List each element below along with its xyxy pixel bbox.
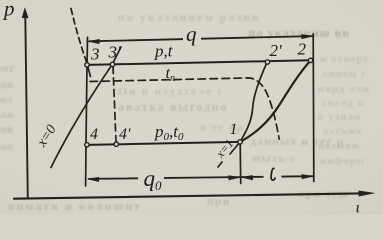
q dimension right arrowhead [302,34,313,38]
svg-text:4: 4 [90,126,98,143]
extension tick above 3 [86,37,88,62]
svg-text:данных и тег р: данных и тег р [250,134,345,148]
extension tick below 1 [239,142,242,184]
svg-text:своед н: своед н [322,97,365,109]
svg-text:p: p [2,0,15,21]
l right arrowhead [302,174,313,178]
node 4' [114,142,118,146]
svg-text:аж: аж [0,107,15,121]
p axis arrowhead [22,8,28,18]
dashed isotherm t_n [90,78,279,139]
svg-text:2: 2 [298,40,307,59]
compression line 1-2 [240,61,310,142]
bottom isobar line p0,t0 (4 to 1) [87,142,240,145]
q label mask [183,28,201,49]
node 2 [308,58,312,62]
q dimension left arrowhead [88,39,99,43]
svg-text:ня: ня [0,139,14,153]
top isobar line p,t (3 to 2) [87,60,311,65]
svg-text:3: 3 [90,45,100,64]
svg-text:ол: ол [0,92,13,106]
x=1 saturation curve 1 to 2' [240,62,267,142]
p axis [25,17,28,199]
l left arrowhead [242,175,253,179]
l label mask [264,167,282,186]
svg-text:ι: ι [356,200,360,216]
label l (work) [271,168,275,180]
dashed isotherm t through point 3 [71,9,87,63]
q0 right arrowhead [229,176,240,180]
q dimension line [89,36,312,41]
svg-text:мыть с: мыть с [252,151,296,165]
q0 label mask [138,167,164,191]
svg-text:анием г: анием г [322,68,367,80]
svg-text:p,t: p,t [154,42,174,61]
svg-text:1: 1 [230,121,238,138]
x=1 curve below point 1 [218,142,240,167]
right extension tick through 2 [312,34,315,182]
dashed vertical 3'-4' [113,67,116,142]
node 3' [110,62,114,66]
q0 left arrowhead [88,177,99,181]
node 2' [265,60,269,64]
svg-text:4': 4' [119,126,131,143]
svg-text:ив: ив [0,122,14,136]
node 3 [85,63,89,67]
svg-text:3': 3' [108,43,122,62]
svg-text:q: q [186,22,197,46]
x=0 saturation curve [51,47,121,168]
svg-text:информ: информ [320,155,365,167]
svg-text:и отверг: и отверг [320,53,370,65]
i axis [14,193,360,198]
node 1 [238,140,242,144]
svg-text:Ои в издателе і: Ои в издателе і [118,84,222,98]
left vertical 3-4 and extension tick [86,65,87,186]
svg-text:виматн и колишнт: виматн и колишнт [8,199,142,213]
i axis arrowhead [359,191,375,196]
svg-text:мт: мт [0,61,14,75]
isotherm continuation below 3 [88,68,91,77]
svg-text:о узнач: о узнач [318,111,361,123]
bottom dimension line q0 and l [89,176,313,179]
ink layer [14,8,374,199]
svg-text:2': 2' [270,41,283,60]
svg-text:аватка выгодно: аватка выгодно [118,100,228,114]
svg-text:норд лти: норд лти [318,83,370,95]
node 4 [85,143,89,147]
svg-text:нв: нв [0,77,14,91]
